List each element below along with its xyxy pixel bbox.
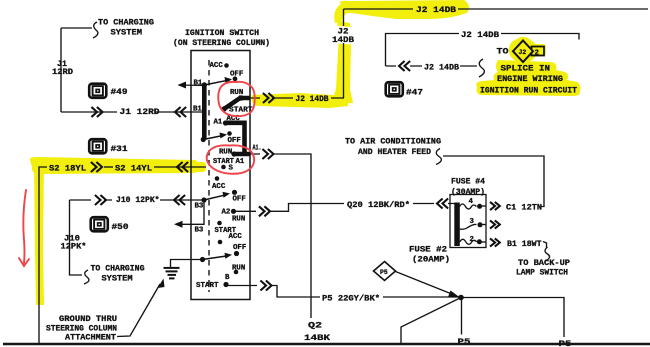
svg-text:ACC: ACC [212,183,226,191]
svg-text:C1 12TN: C1 12TN [506,203,542,213]
svg-text:IGNITION SWITCH: IGNITION SWITCH [185,28,259,38]
svg-text:P5: P5 [380,269,388,276]
squiggle to charging system bottom [84,270,89,284]
squiggle heater feed [436,149,441,165]
highlight S2 extension into box [193,162,206,172]
svg-text:(ON STEERING COLUMN): (ON STEERING COLUMN) [173,38,270,48]
svg-text:OFF: OFF [233,244,246,252]
svg-text:#49: #49 [111,87,128,97]
svg-text:TO CHARGING: TO CHARGING [98,18,154,28]
fuse dot 4 [477,204,482,209]
fuse element 3 [460,224,477,229]
svg-text:GROUND THRU: GROUND THRU [59,314,117,324]
svg-text:B1: B1 [193,106,202,114]
highlighter layer [30,0,581,305]
svg-text:Q20 12BK/RD*: Q20 12BK/RD* [347,200,410,210]
svg-text:OFF: OFF [233,196,246,204]
connector arrow << on J10 [174,195,185,205]
pivot dot w4 [200,257,205,262]
wire A1 out of switch [250,154,311,318]
splice diamond J2 [513,41,533,63]
svg-text:(20AMP): (20AMP) [412,255,450,265]
splice 2 box [532,47,545,56]
svg-text:B1 18WT: B1 18WT [507,239,542,249]
highlight S2 row [30,157,200,174]
connector arrow >> fuse4 [490,202,500,210]
red circle wafer2 RUN-START [207,145,255,173]
connector arrow >> on START [260,281,271,291]
connector arrow >> on J1 [91,107,102,117]
svg-text:ENGINE WIRING: ENGINE WIRING [497,74,563,84]
thick B1 bus [202,86,207,140]
A1 dot w2 [223,120,228,125]
svg-text:IGNITION RUN CIRCUIT: IGNITION RUN CIRCUIT [480,86,577,96]
svg-text:B: B [225,274,230,282]
wire J2 out of switch [250,97,344,99]
switch arm w4 [203,256,229,260]
svg-text:J2 14DB: J2 14DB [424,63,459,73]
svg-text:#50: #50 [112,222,129,232]
thick A1 path w2 [226,123,250,154]
svg-text:SPLICE IN: SPLICE IN [501,64,551,74]
ground wire from switch [171,260,203,268]
highlight vertical band J2 [331,21,353,104]
connector arrow >> on J10 [95,195,106,205]
arrow out B1 w1 [179,84,204,87]
svg-text:Q2: Q2 [308,321,322,331]
P5 pointer arrowhead [448,291,460,298]
connector arrow << on S2 [177,162,188,172]
svg-text:ATTACHMENT: ATTACHMENT [65,333,116,343]
svg-text:S: S [229,165,234,173]
squiggle to charging system top [93,22,98,38]
wire fuse3 out [481,224,486,226]
ACC dot w3 [215,176,220,181]
ground pointer line [117,284,160,337]
highlight top J2 14DB label [334,0,469,23]
fuse dot 2 [477,239,482,244]
highlight splice text block [476,60,580,96]
ground symbol [164,268,180,279]
fuse box outline [450,195,486,248]
svg-text:J2 14DB: J2 14DB [416,5,456,15]
svg-text:RUN: RUN [219,149,232,157]
wire to charging system (top horizontal) [61,27,92,29]
svg-text:J2 14DB: J2 14DB [296,94,329,104]
pivot dot w3 [201,197,206,202]
connector #31 [89,139,106,153]
connector arrow >> on A1 [262,149,273,159]
svg-text:J2: J2 [519,49,527,56]
wire J2 top horizontal [344,8,649,10]
highlight left vertical band [34,162,44,305]
svg-text:OFF: OFF [228,137,241,145]
fuse dot 3 [478,222,483,227]
OFF dot w2 [227,131,232,136]
svg-text:A1: A1 [236,158,245,166]
svg-text:TO BACK-UP: TO BACK-UP [518,258,570,268]
svg-text:B3: B3 [195,227,204,235]
svg-text:TO AIR CONDITIONING: TO AIR CONDITIONING [345,137,441,147]
wire S2 corner + vertical to bottom [39,167,47,344]
START dot w1 [221,106,226,111]
ground pointer arrowhead [158,279,165,289]
svg-text:14DB: 14DB [332,35,354,45]
wire J10 horizontal [70,199,204,201]
connector #47 [386,82,403,96]
svg-text:#47: #47 [406,88,423,98]
svg-text:(30AMP): (30AMP) [451,187,485,197]
B dot w4 [223,282,228,287]
svg-text:AND HEATER FEED: AND HEATER FEED [358,147,431,157]
wire S2 mid segment [104,166,113,168]
svg-text:START: START [196,282,219,290]
wire J2 vertical riser [343,9,345,98]
ACC dot w4 [218,240,223,245]
switch arm w1 [204,80,227,85]
highlight splice diamond [509,37,537,62]
RUN dot w2 [231,151,236,156]
svg-text:J1 12RD: J1 12RD [120,107,160,117]
START dot w2 [221,165,226,170]
connector arrow >> on A2 [259,206,270,216]
svg-text:A1.: A1. [253,145,262,153]
RUN dot w4 [234,270,239,275]
highlight 2 box [530,44,546,56]
svg-text:J2 14DB: J2 14DB [461,30,499,40]
connector arrow << on Q20 [437,199,448,209]
junction dot [458,295,464,301]
pivot dot B1 w1 [202,82,207,87]
connector arrow >> fuse3 [490,220,500,228]
connector arrow << on J1 [175,107,186,117]
fuse element 2 [460,239,477,244]
red arrow down left [23,190,26,263]
svg-text:RUN: RUN [232,216,245,224]
thick run path w1 [224,98,250,109]
P5 diamond [374,262,396,281]
svg-text:B3: B3 [195,203,204,211]
wire J1 12RD horizontal [61,111,204,113]
svg-text:#31: #31 [111,144,128,154]
switch arm w3 [204,195,226,200]
red circle wafer1 RUN-START [218,82,255,116]
svg-text:FUSE #4: FUSE #4 [451,177,485,187]
fuse bus bar [454,203,460,247]
svg-text:14BK: 14BK [304,333,331,343]
connector arrow >> on J2 [263,93,274,103]
svg-text:LAMP SWITCH: LAMP SWITCH [516,268,568,278]
OFF dot w1 [233,76,238,81]
svg-text:P5: P5 [458,337,471,347]
fuse element 4 [460,204,477,209]
svg-text:S2 18YL: S2 18YL [49,164,86,174]
svg-text:TO: TO [497,47,509,57]
switch arm w2 [203,136,223,140]
wire branch right then down [461,298,564,338]
connector #50 [91,217,108,231]
svg-text:12RD: 12RD [52,67,73,77]
wire J10 vertical [70,200,83,275]
svg-text:A2: A2 [222,209,231,217]
connector arrow >> on S2 [91,162,102,172]
ACC dot w1 [224,63,229,68]
svg-text:P5 22GY/BK*: P5 22GY/BK* [322,294,380,304]
connector #49 [89,84,106,98]
wire START out of switch [228,286,461,298]
ignition switch box outline [191,51,250,300]
wire J1 vertical [60,28,62,112]
backup lamp hook + squiggle [543,242,550,262]
bottom border line [3,343,650,346]
B3 loop wire [176,201,204,224]
svg-text:ACC: ACC [229,233,243,241]
wire A2 out of switch [236,204,455,212]
P5 pointer line [396,272,454,295]
wire J2 splice row [386,65,478,67]
svg-text:B1: B1 [194,80,203,88]
svg-text:FUSE #2: FUSE #2 [409,245,447,255]
svg-text:2: 2 [535,50,539,58]
svg-text:SYSTEM: SYSTEM [111,28,143,38]
svg-text:SYSTEM: SYSTEM [102,274,133,284]
wire fuse2 out [482,241,487,243]
svg-text:ACC: ACC [210,62,224,70]
wire J2 second branch [386,34,580,67]
squiggle splice [479,59,484,77]
wire branch straight down [461,298,463,335]
OFF dot w3 [232,190,237,195]
svg-text:S2 14YL: S2 14YL [115,164,152,174]
pivot dot w2 [201,137,206,142]
connector arrow >> fuse2 [490,238,500,246]
svg-text:TO CHARGING: TO CHARGING [91,264,145,274]
OFF dot w4 [234,251,239,256]
wire heater feed to fuse [443,156,544,207]
wire fuse4 out [481,205,487,207]
highlight band J2 14DB at switch exit [252,93,348,108]
svg-text:J10 12PK*: J10 12PK* [116,195,160,205]
A2 dot w3 [231,209,236,214]
connector arrow << splice row [399,61,410,71]
START dot w3 [217,221,222,226]
wire branch down-left [401,298,461,344]
wire S2 right segment into switch [154,166,206,168]
svg-text:A1: A1 [214,119,223,127]
dashed divider line [208,60,210,292]
svg-text:12PK*: 12PK* [61,242,87,252]
